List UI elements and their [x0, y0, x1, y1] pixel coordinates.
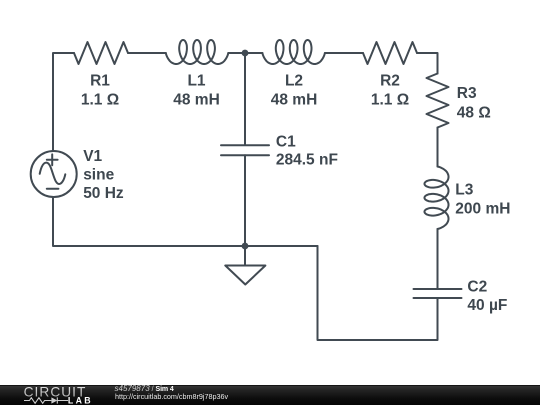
- svg-text:L1: L1: [187, 73, 205, 90]
- wire: left vertical top (V1 top to top-left corner) and top wire to R1: [53, 53, 74, 151]
- resistor R2: [363, 42, 417, 64]
- svg-text:200 mH: 200 mH: [455, 200, 510, 217]
- svg-text:48 mH: 48 mH: [271, 91, 318, 108]
- ground node junction dot: [242, 243, 249, 250]
- wire: R1 to L1: [128, 52, 166, 54]
- V1 plus sign: [47, 154, 58, 165]
- svg-text:LAB: LAB: [68, 395, 93, 405]
- voltage source V1: [31, 151, 77, 197]
- inductor L1: [166, 40, 229, 64]
- wire: L3 to C2 top plate: [437, 229, 439, 289]
- wire: R2 to top-right corner down to R3: [417, 53, 438, 74]
- inductor L2: [262, 40, 325, 64]
- footer text: [115, 384, 174, 394]
- V1 sine waveform: [40, 163, 66, 184]
- footer bar: [0, 385, 540, 405]
- node A junction dot: [242, 50, 249, 57]
- wire: node A to C1 top plate: [244, 53, 246, 145]
- svg-text:L3: L3: [455, 181, 473, 198]
- svg-text:R2: R2: [380, 73, 400, 90]
- wire: L1 to node A to L2: [228, 52, 262, 54]
- ground symbol: [225, 266, 265, 285]
- capacitor C1: [221, 145, 269, 155]
- svg-text:1.1 Ω: 1.1 Ω: [371, 91, 409, 108]
- logo diode triangle: [51, 397, 57, 403]
- svg-text:48 mH: 48 mH: [173, 91, 220, 108]
- svg-text:sine: sine: [83, 167, 114, 184]
- inductor L3: [425, 167, 449, 230]
- wire: R3 to L3: [437, 128, 439, 167]
- resistor R3: [427, 74, 449, 128]
- svg-text:1.1 Ω: 1.1 Ω: [81, 91, 119, 108]
- wire: L2 to R2: [325, 52, 363, 54]
- svg-text:C1: C1: [276, 134, 296, 151]
- svg-text:V1: V1: [83, 148, 102, 165]
- wire: bottom rail (riser corner to V1 bottom): [53, 197, 318, 246]
- svg-text:C2: C2: [467, 279, 487, 296]
- resistor R1: [74, 42, 128, 64]
- svg-text:R1: R1: [90, 73, 110, 90]
- CircuitLab logo: [20, 385, 120, 405]
- svg-text:48 Ω: 48 Ω: [457, 105, 491, 122]
- wire: C1 bottom plate to ground rail: [244, 155, 246, 246]
- svg-text:50 Hz: 50 Hz: [83, 185, 124, 202]
- svg-text:40 µF: 40 µF: [467, 297, 507, 314]
- wire: C2 bottom plate to bottom-right corner to bottom wire to riser: [318, 246, 438, 340]
- svg-text:284.5 nF: 284.5 nF: [276, 151, 338, 168]
- capacitor C2: [414, 289, 462, 298]
- V1 minus sign: [47, 188, 59, 190]
- svg-text:R3: R3: [457, 85, 477, 102]
- svg-text:L2: L2: [285, 73, 303, 90]
- ground stem: [244, 246, 246, 266]
- logo resistor squiggle: [24, 397, 68, 403]
